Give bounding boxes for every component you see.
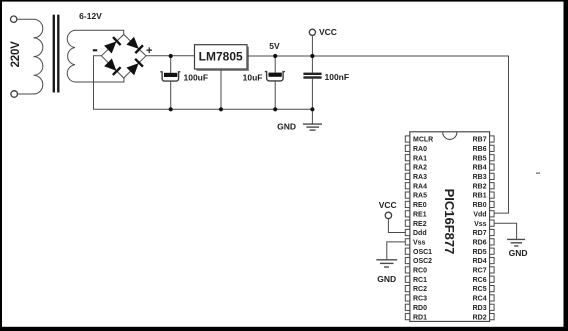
capacitor C2 positive plate	[269, 73, 282, 77]
svg-text:100nF: 100nF	[325, 72, 350, 82]
pin 26 (right) RC7	[473, 267, 495, 275]
svg-text:RD4: RD4	[473, 258, 487, 265]
svg-text:RC1: RC1	[413, 277, 427, 284]
transformer core bar 2	[57, 15, 59, 93]
pin 33 (right) RB0	[473, 201, 495, 209]
wire: U1 right Vss to ground	[494, 223, 517, 239]
svg-text:RD2: RD2	[473, 314, 487, 321]
junction: C1/ground rail	[169, 107, 173, 111]
svg-text:RB4: RB4	[473, 165, 487, 172]
pin 2 (left) RA0	[405, 145, 427, 153]
wire: C3 top lead	[311, 56, 313, 73]
svg-text:RD7: RD7	[473, 230, 487, 237]
svg-text:RB2: RB2	[473, 183, 487, 190]
svg-text:RD1: RD1	[413, 314, 427, 321]
pin 3 (left) RA1	[405, 155, 427, 163]
wire: U1 left Vss to ground	[387, 242, 406, 260]
svg-text:OSC2: OSC2	[413, 258, 432, 265]
pin 6 (left) RA4	[405, 183, 427, 191]
pin 20 (left) RD1	[405, 314, 427, 322]
pin 34 (right) RB1	[473, 192, 495, 200]
wire: C2 bottom lead	[274, 81, 276, 109]
terminal VCC (at U1 Ddd pin)	[385, 212, 391, 218]
pin 22 (right) RD3	[473, 304, 495, 312]
svg-text:RA2: RA2	[413, 165, 427, 172]
wire: secondary bottom to bridge AC node	[75, 78, 124, 82]
terminal: 220V input bottom	[11, 91, 18, 98]
pin 9 (left) RE1	[405, 211, 426, 219]
ground symbol (supply GND)	[303, 124, 322, 130]
terminal: 220V input top	[11, 16, 17, 22]
junction: regulator gnd/ground rail	[219, 107, 223, 111]
svg-text:RB6: RB6	[473, 146, 487, 153]
pin 15 (left) RC0	[405, 267, 427, 275]
transformer T1 secondary winding	[67, 30, 75, 82]
svg-text:RC6: RC6	[473, 277, 487, 284]
pin 38 (right) RB5	[473, 155, 495, 163]
pin 28 (right) RD5	[473, 248, 495, 256]
diode D4 (bridge bottom-right)	[127, 58, 144, 75]
svg-text:RE0: RE0	[413, 202, 427, 209]
pin 18 (left) RC3	[405, 295, 427, 303]
pin 17 (left) RC2	[405, 286, 427, 294]
pin 27 (right) RD4	[473, 257, 495, 265]
svg-text:VCC: VCC	[379, 200, 397, 210]
svg-text:RB3: RB3	[473, 174, 487, 181]
wire: transformer primary top lead	[17, 18, 34, 20]
svg-text:RC3: RC3	[413, 296, 427, 303]
ground symbol (U1 right Vss)	[507, 239, 525, 246]
pin 8 (left) RE0	[405, 201, 426, 209]
pin 14 (left) OSC2	[405, 257, 432, 265]
svg-text:RC5: RC5	[473, 286, 487, 293]
svg-text:Vss: Vss	[413, 239, 426, 246]
wire: C1 bottom lead	[170, 81, 172, 109]
pin 24 (right) RC5	[473, 286, 495, 294]
capacitor C2 negative cup	[265, 72, 285, 81]
wire: VCC terminal stem	[311, 35, 313, 56]
svg-text:5V: 5V	[269, 41, 280, 51]
junction: C3/ground rail	[310, 107, 314, 111]
transformer core bar 1	[53, 15, 55, 93]
svg-text:GND: GND	[377, 274, 396, 284]
diode D2 (bridge top-right)	[127, 37, 144, 54]
label - (bridge negative)	[93, 49, 97, 51]
pin 37 (right) RB4	[473, 164, 495, 172]
wire: C1 top lead	[170, 56, 172, 74]
svg-text:RC2: RC2	[413, 286, 427, 293]
wire: bridge negative to ground rail, ground rail to GND	[94, 56, 313, 124]
svg-text:GND: GND	[277, 122, 296, 132]
wire: bridge positive to regulator input	[146, 55, 195, 57]
svg-text:RD3: RD3	[473, 305, 487, 312]
junction: VCC/C3 rail	[310, 54, 314, 58]
junction: C1/rail	[169, 54, 173, 58]
svg-text:Ddd: Ddd	[413, 230, 427, 237]
pin 11 (left) Ddd	[405, 229, 426, 237]
bridge rectifier diamond	[101, 35, 146, 79]
ground symbol (U1 left Vss)	[376, 260, 397, 267]
wire: secondary top to bridge AC node	[75, 30, 124, 34]
pin 31 (right) Vss	[474, 220, 494, 228]
svg-text:RD5: RD5	[473, 249, 487, 256]
svg-text:RC7: RC7	[473, 268, 487, 275]
pin 36 (right) RB3	[473, 173, 495, 181]
capacitor C3 plate top	[303, 73, 321, 75]
svg-text:Vdd: Vdd	[473, 211, 486, 218]
stray mark (small dash)	[536, 172, 540, 174]
pin 13 (left) OSC1	[405, 248, 432, 256]
svg-text:+: +	[146, 45, 152, 57]
pin 29 (right) RD6	[473, 239, 495, 247]
IC U1 pin-1 notch	[443, 132, 457, 139]
pin 5 (left) RA3	[405, 173, 427, 181]
svg-text:RB0: RB0	[473, 202, 487, 209]
svg-text:6-12V: 6-12V	[79, 11, 102, 21]
svg-text:RA4: RA4	[413, 183, 427, 190]
diode D1 (bridge left-top)	[104, 36, 121, 53]
wire: transformer primary bottom lead	[18, 93, 34, 95]
pin 19 (left) RD0	[405, 304, 427, 312]
pin 25 (right) RC6	[473, 276, 495, 284]
svg-text:Vss: Vss	[474, 221, 487, 228]
capacitor C1 negative cup	[160, 72, 180, 81]
regulator U2 shadow	[197, 47, 250, 71]
pin 4 (left) RA2	[405, 164, 427, 172]
IC U1 PIC16F877 body	[410, 132, 490, 322]
wire: VCC to Ddd pin	[388, 219, 405, 233]
pin 12 (left) Vss	[405, 239, 425, 247]
svg-text:VCC: VCC	[319, 27, 337, 37]
svg-text:RB1: RB1	[473, 193, 487, 200]
pin 21 (right) RD2	[473, 314, 495, 322]
capacitor C1 positive plate	[164, 73, 177, 77]
svg-text:RC0: RC0	[413, 268, 427, 275]
regulator U2 LM7805	[195, 45, 248, 69]
svg-text:RA1: RA1	[413, 155, 427, 162]
wire: C3 bottom lead	[311, 79, 313, 110]
svg-text:LM7805: LM7805	[199, 50, 243, 64]
pin 32 (right) Vdd	[473, 211, 494, 219]
capacitor C3 plate bottom	[303, 76, 321, 78]
pin 16 (left) RC1	[405, 276, 427, 284]
svg-text:OSC1: OSC1	[413, 249, 432, 256]
pin 30 (right) RD7	[473, 229, 495, 237]
svg-text:PIC16F877: PIC16F877	[442, 189, 457, 255]
svg-text:RB7: RB7	[473, 137, 487, 144]
pin 35 (right) RB2	[473, 183, 495, 191]
pin 7 (left) RA5	[405, 192, 427, 200]
pin 1 (left) MCLR	[405, 136, 433, 144]
pin 40 (right) RB7	[473, 136, 495, 144]
pin 23 (right) RC4	[473, 295, 495, 303]
svg-text:RE1: RE1	[413, 211, 427, 218]
svg-text:RB5: RB5	[473, 155, 487, 162]
svg-text:RD6: RD6	[473, 239, 487, 246]
pin 39 (right) RB6	[473, 145, 495, 153]
svg-text:RC4: RC4	[473, 296, 487, 303]
junction: C2/5V rail	[273, 54, 277, 58]
svg-text:10uF: 10uF	[243, 73, 263, 83]
svg-text:GND: GND	[509, 248, 528, 258]
wire: regulator ground lead	[220, 69, 222, 109]
svg-text:MCLR: MCLR	[413, 137, 433, 144]
wire: C2 top lead	[274, 56, 276, 73]
svg-text:RD0: RD0	[413, 305, 427, 312]
svg-text:220V: 220V	[10, 41, 22, 68]
svg-text:RE2: RE2	[413, 221, 427, 228]
transformer T1 primary winding	[34, 19, 43, 94]
svg-text:RA0: RA0	[413, 146, 427, 153]
terminal VCC	[309, 29, 315, 35]
junction: C2/ground rail	[273, 107, 277, 111]
svg-text:100uF: 100uF	[184, 73, 209, 83]
svg-text:RA3: RA3	[413, 174, 427, 181]
pin 10 (left) RE2	[405, 220, 426, 228]
wire: 5V output rail to Vdd of U1	[247, 56, 509, 213]
diode D3 (bridge left-bottom)	[104, 59, 121, 76]
svg-text:RA5: RA5	[413, 193, 427, 200]
